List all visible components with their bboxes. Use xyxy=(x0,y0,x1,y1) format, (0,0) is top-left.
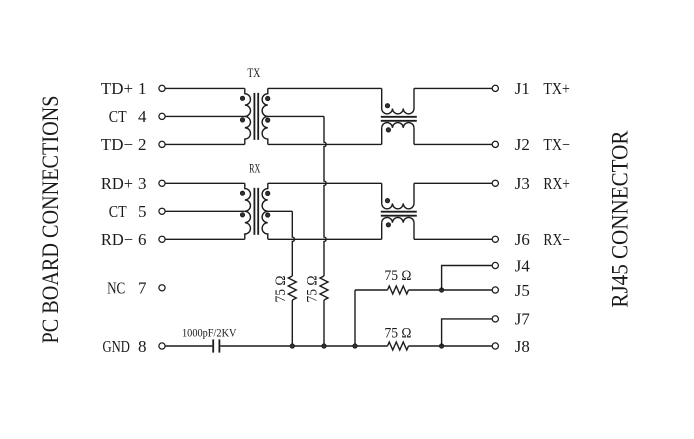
wire T1 secondary bottom to L1 xyxy=(268,143,382,145)
wire pin4 to T1 primary CT xyxy=(165,115,245,117)
svg-text:RD−: RD− xyxy=(101,230,133,249)
svg-text:75 Ω: 75 Ω xyxy=(273,276,289,303)
svg-text:J7: J7 xyxy=(515,310,530,329)
wire to R3 xyxy=(355,289,388,291)
svg-text:J5: J5 xyxy=(515,281,530,300)
svg-text:75 Ω: 75 Ω xyxy=(304,276,320,303)
choke L1 core xyxy=(381,116,417,118)
T1 phase dot secondary top xyxy=(266,96,270,100)
R2 value label 75 ohm xyxy=(304,276,320,303)
transformer T2 core xyxy=(253,188,255,235)
T2 phase dot primary top xyxy=(240,191,244,195)
svg-text:TX−: TX− xyxy=(543,135,570,154)
svg-text:6: 6 xyxy=(138,230,147,249)
svg-text:J6: J6 xyxy=(515,230,530,249)
wire GND bus xyxy=(220,345,387,347)
wire pin6 to T2 primary xyxy=(165,238,245,240)
transformer T1 secondary winding xyxy=(262,88,268,116)
T1 phase dot primary top xyxy=(240,96,244,100)
svg-text:TX+: TX+ xyxy=(543,79,570,98)
pin J5 (RJ45 side) xyxy=(492,287,498,293)
svg-text:1000pF/2KV: 1000pF/2KV xyxy=(182,326,237,340)
wire pin2 to T1 primary xyxy=(165,143,245,145)
pin J1 TX+ (RJ45 side) xyxy=(492,85,498,91)
choke L2 core xyxy=(381,211,417,213)
svg-text:RX+: RX+ xyxy=(543,174,570,193)
svg-text:5: 5 xyxy=(138,202,147,221)
pin J2 TX− (RJ45 side) xyxy=(492,141,498,147)
choke L1 bottom winding xyxy=(381,128,383,144)
wire J4 branch xyxy=(442,266,493,291)
R1 value label 75 ohm xyxy=(273,276,289,303)
svg-text:1: 1 xyxy=(138,79,147,98)
pin J4 (RJ45 side) xyxy=(492,262,498,268)
svg-text:RX: RX xyxy=(249,162,260,176)
svg-text:GND: GND xyxy=(103,337,130,356)
svg-text:CT: CT xyxy=(109,107,127,126)
svg-text:3: 3 xyxy=(138,174,147,193)
svg-text:CT: CT xyxy=(109,202,127,221)
wire pin8 to C1 xyxy=(165,345,212,347)
svg-text:7: 7 xyxy=(138,279,147,298)
wire T1 secondary CT xyxy=(268,115,324,117)
transformer T1 core xyxy=(253,93,255,140)
wire L2 to J3 xyxy=(414,182,492,184)
L2 phase dot bottom xyxy=(386,223,390,227)
pin J3 RX+ (RJ45 side) xyxy=(492,180,498,186)
left title: PC BOARD CONNECTIONS xyxy=(38,96,63,344)
T2 phase dot secondary top xyxy=(266,191,270,195)
L1 phase dot bottom xyxy=(386,128,390,132)
L2 phase dot top xyxy=(385,199,389,203)
svg-text:RD+: RD+ xyxy=(101,174,133,193)
wire pin1 to T1 primary xyxy=(165,87,245,89)
wire R1 to GND bus xyxy=(291,300,293,346)
svg-text:75 Ω: 75 Ω xyxy=(385,268,412,284)
svg-text:RJ45 CONNECTOR: RJ45 CONNECTOR xyxy=(608,130,633,308)
transformer T2 secondary winding xyxy=(262,183,268,211)
wire T2 secondary to L2 xyxy=(268,182,382,184)
svg-text:TX: TX xyxy=(247,66,260,80)
resistor R1 75ohm (RX CT) xyxy=(288,276,296,300)
T1 phase dot primary bottom xyxy=(240,118,244,122)
wire TX-CT vertical (crossovers) xyxy=(324,116,326,276)
junction node J8/J7 xyxy=(440,344,444,348)
svg-text:PC BOARD CONNECTIONS: PC BOARD CONNECTIONS xyxy=(38,96,63,344)
wire R3 branch from GND bus xyxy=(354,290,356,346)
junction node R1/GND xyxy=(290,344,294,348)
svg-text:J4: J4 xyxy=(515,256,530,275)
wire R2 to GND bus xyxy=(323,300,325,346)
svg-text:J3: J3 xyxy=(515,174,530,193)
pin J6 RX− (RJ45 side) xyxy=(492,236,498,242)
pin J8 (RJ45 side) xyxy=(492,343,498,349)
choke L2 bottom winding xyxy=(381,223,383,240)
choke L1 top winding xyxy=(381,88,383,108)
wire L2 to J6 xyxy=(414,238,492,240)
resistor R3 75ohm xyxy=(388,286,409,294)
wire T1 secondary to L1 xyxy=(268,87,382,89)
svg-text:TD−: TD− xyxy=(101,135,133,154)
svg-text:J1: J1 xyxy=(515,79,530,98)
wire R3 to J5 xyxy=(409,289,493,291)
resistor R2 75ohm (TX CT) xyxy=(320,276,328,300)
svg-text:4: 4 xyxy=(138,107,147,126)
choke L2 top winding xyxy=(381,183,383,203)
junction node J5/J4 xyxy=(440,288,444,292)
svg-text:J2: J2 xyxy=(515,135,530,154)
wire L1 to J2 xyxy=(414,143,492,145)
transformer T2 primary winding xyxy=(245,183,251,211)
wire pin5 to T2 primary CT xyxy=(165,210,245,212)
T1 phase dot secondary bottom xyxy=(266,118,270,122)
wire J7 branch xyxy=(442,319,493,346)
pin J7 (RJ45 side) xyxy=(492,316,498,322)
svg-text:RX−: RX− xyxy=(543,230,570,249)
svg-text:2: 2 xyxy=(138,135,147,154)
wire R4 to J8 xyxy=(409,345,493,347)
T2 phase dot primary bottom xyxy=(240,213,244,217)
svg-text:8: 8 xyxy=(138,337,147,356)
L1 phase dot top xyxy=(385,104,389,108)
resistor R4 75ohm xyxy=(388,342,409,350)
wire pin3 to T2 primary xyxy=(165,182,245,184)
wire RX-CT vertical (crossover) xyxy=(292,211,294,276)
junction node R2/GND xyxy=(322,344,326,348)
T2 phase dot secondary bottom xyxy=(266,213,270,217)
svg-text:NC: NC xyxy=(107,279,125,298)
junction node R3/GND xyxy=(353,344,357,348)
capacitor C1 1000pF/2KV xyxy=(212,339,214,352)
wire L1 to J1 xyxy=(414,87,492,89)
wire T2 secondary bottom to L2 xyxy=(268,238,382,240)
right title: RJ45 CONNECTOR xyxy=(608,130,633,308)
svg-text:J8: J8 xyxy=(515,337,530,356)
svg-text:TD+: TD+ xyxy=(101,79,133,98)
transformer T1 primary winding xyxy=(245,88,251,116)
wire T2 secondary CT xyxy=(268,210,293,212)
svg-text:75 Ω: 75 Ω xyxy=(385,326,412,342)
